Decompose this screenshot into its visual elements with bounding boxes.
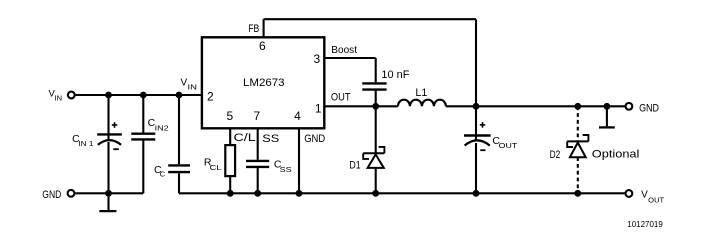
junction COUT bottom: [473, 190, 480, 197]
wire pin6 FB stub: [263, 19, 265, 37]
svg-text:6: 6: [259, 39, 266, 53]
svg-text:10 nF: 10 nF: [381, 69, 409, 81]
junction D1 bottom: [372, 190, 379, 197]
D1 label: [349, 160, 360, 172]
diode D1 schottky: [363, 106, 384, 193]
pin number 7: [254, 109, 261, 123]
terminal GND right: [626, 103, 633, 110]
junction D2 bottom: [574, 190, 581, 197]
pin label GND: [304, 133, 325, 145]
op IC U1 LM2673 box: [202, 37, 324, 128]
svg-text:7: 7: [254, 109, 261, 123]
svg-text:C: C: [160, 169, 166, 178]
svg-text:Boost: Boost: [331, 44, 357, 56]
wire Boost down to cap: [375, 58, 377, 82]
CSS label: [274, 158, 292, 174]
figure number 10127019: [627, 220, 663, 229]
wire OUT rail right part: [446, 105, 625, 107]
capacitor CSS: [246, 129, 269, 193]
inductor L1: [398, 100, 446, 107]
COUT label: [492, 135, 517, 150]
junction output node (FB/COUT): [473, 103, 480, 110]
pin label C/L: [234, 132, 256, 144]
svg-text:L1: L1: [415, 87, 427, 99]
svg-text:OUT: OUT: [499, 141, 518, 150]
svg-text:IN 1: IN 1: [78, 139, 93, 148]
svg-text:IN: IN: [54, 96, 62, 103]
pin label SS: [262, 133, 279, 145]
GND right label: [639, 102, 659, 114]
wire GND rail left: [75, 192, 143, 194]
svg-text:2: 2: [207, 89, 214, 103]
wire GND pin4 stub: [298, 129, 300, 193]
junction switch node (10nF/D1): [372, 103, 379, 110]
CIN1 plus sign: [112, 122, 118, 128]
capacitor CC: [168, 95, 190, 193]
junction CC top: [176, 92, 183, 99]
wire VIN rail: [76, 94, 201, 96]
wire Boost stub: [325, 57, 375, 59]
node VIN label: [49, 89, 63, 103]
svg-text:C/L: C/L: [234, 132, 256, 144]
pin label Boost: [331, 44, 357, 56]
junction CIN1 top: [105, 92, 112, 99]
svg-text:D2: D2: [550, 149, 561, 161]
svg-text:4: 4: [294, 109, 301, 123]
svg-text:GND: GND: [639, 102, 659, 114]
L1 label: [415, 87, 427, 99]
svg-text:5: 5: [227, 109, 234, 123]
COUT plus sign: [480, 122, 485, 128]
wire VOUT rail: [179, 192, 625, 194]
value label 10 nF: [381, 69, 409, 81]
IC name label LM2673: [243, 77, 285, 89]
CIN2 label: [148, 117, 169, 133]
svg-text:OUT: OUT: [331, 92, 351, 104]
CC label: [154, 164, 166, 178]
Optional label: [592, 149, 640, 161]
wire FB down to output node: [475, 19, 477, 106]
terminal VOUT: [626, 190, 633, 197]
junction D2 top: [574, 103, 581, 110]
pin number 6: [259, 39, 266, 53]
CIN1 label: [72, 133, 93, 148]
svg-text:V: V: [181, 77, 188, 88]
junction pin4 bottom: [296, 190, 303, 197]
pin label FB: [248, 23, 259, 35]
pin number 4: [294, 109, 301, 123]
terminal VIN: [68, 92, 75, 99]
node VIN at pin 2 label: [181, 77, 198, 91]
svg-text:SS: SS: [280, 165, 292, 174]
pin number 2: [207, 89, 214, 103]
svg-text:SS: SS: [262, 133, 279, 145]
svg-text:IN: IN: [188, 82, 198, 91]
junction CIN2 top: [140, 92, 147, 99]
junction ground symbol right: [604, 103, 611, 110]
terminal GND left: [68, 190, 75, 197]
pin number 3: [313, 52, 320, 66]
junction CSS bottom: [254, 190, 261, 197]
svg-text:10127019: 10127019: [627, 220, 663, 229]
pin number 5: [227, 109, 234, 123]
svg-text:LM2673: LM2673: [243, 77, 285, 89]
capacitor 10nF: [362, 83, 386, 106]
svg-text:V: V: [641, 189, 648, 200]
svg-text:GND: GND: [42, 189, 61, 201]
COUT minus sign: [480, 149, 485, 151]
svg-text:IN2: IN2: [155, 124, 169, 133]
ground symbol right: [599, 106, 615, 127]
svg-text:CL: CL: [210, 163, 222, 172]
svg-text:GND: GND: [304, 133, 325, 145]
svg-text:Optional: Optional: [592, 149, 640, 161]
svg-text:OUT: OUT: [648, 195, 664, 204]
capacitor CIN1: [97, 95, 122, 193]
ground symbol left: [99, 193, 116, 211]
pin number 1: [315, 102, 322, 116]
RCL label: [204, 156, 222, 172]
pin label OUT: [331, 92, 351, 104]
capacitor COUT: [464, 106, 491, 193]
GND left label: [42, 189, 61, 201]
wire OUT rail left part: [325, 105, 398, 107]
D2 label: [550, 149, 561, 161]
junction RCL bottom: [227, 190, 234, 197]
svg-text:3: 3: [313, 52, 320, 66]
wire FB top run: [264, 18, 476, 20]
VOUT label: [641, 189, 665, 204]
CIN1 minus sign: [113, 148, 119, 150]
resistor RCL: [225, 129, 235, 193]
junction GND-CIN1: [105, 190, 112, 197]
svg-text:1: 1: [315, 102, 322, 116]
svg-text:D1: D1: [349, 160, 360, 172]
svg-text:FB: FB: [248, 23, 259, 35]
diode D2 schottky optional: [567, 106, 588, 193]
capacitor CIN2: [131, 95, 155, 193]
